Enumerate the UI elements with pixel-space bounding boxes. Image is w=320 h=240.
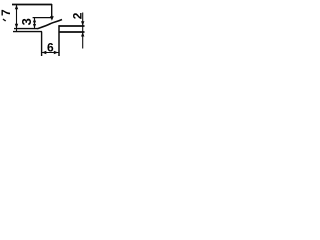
dimension line 2 bbox=[82, 13, 84, 49]
arrow up (3 top) bbox=[33, 18, 36, 22]
right edge of upper board bbox=[51, 4, 53, 17]
svg-text:3: 3 bbox=[19, 18, 34, 25]
arrow up (7 top) bbox=[15, 5, 18, 10]
svg-text:6: 6 bbox=[47, 41, 54, 55]
stray mark below 7 bbox=[3, 19, 7, 22]
dimension line 3 bbox=[34, 18, 36, 29]
dimension line 7 bbox=[16, 4, 18, 31]
dimension line 6 bbox=[42, 52, 59, 54]
arrow down (7 bottom) bbox=[15, 24, 18, 29]
arrow stem on right edge bbox=[51, 15, 53, 18]
right element: plate cross-section bbox=[42, 13, 85, 57]
plate bottom line bbox=[59, 31, 85, 33]
vertical G (left extension of 6-dim) bbox=[41, 32, 43, 56]
arrow up (2 bottom) bbox=[81, 32, 84, 36]
arrow down on right edge (leader) bbox=[50, 16, 54, 21]
arrow down (3 bottom) bbox=[33, 24, 36, 28]
svg-text:2: 2 bbox=[70, 12, 84, 19]
arrow down (2 top) bbox=[81, 21, 84, 25]
left edge of plate bbox=[58, 25, 60, 56]
wavy break line bbox=[37, 20, 62, 29]
plate top line bbox=[59, 25, 85, 27]
lower edge F bbox=[13, 31, 42, 33]
arrow right (6) bbox=[54, 51, 59, 54]
step line C bbox=[33, 17, 52, 19]
bottom edge E bbox=[14, 28, 37, 30]
arrow left (6) bbox=[42, 51, 47, 54]
svg-text:7: 7 bbox=[0, 9, 13, 16]
top edge of upper board bbox=[12, 4, 52, 6]
